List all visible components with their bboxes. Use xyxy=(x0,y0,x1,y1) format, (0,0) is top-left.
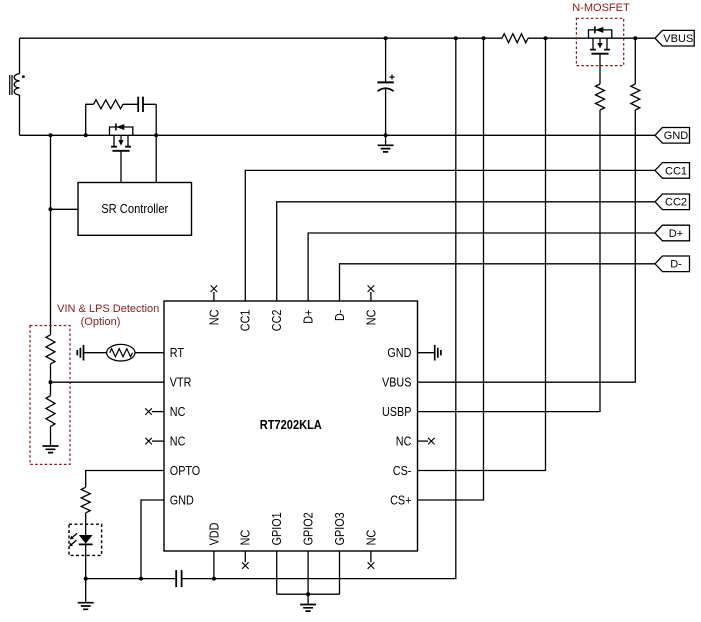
pin NC left stub 1 xyxy=(152,411,164,413)
resistor R2 snubber xyxy=(94,100,123,109)
pin NC bottom stub 1 xyxy=(244,551,246,562)
wire bottom VDD rail xyxy=(86,38,456,578)
ground GPIO xyxy=(307,594,309,604)
port D+ xyxy=(655,225,690,241)
port GND xyxy=(655,128,690,144)
wire GND rail xyxy=(20,134,656,136)
wire GPIO bus xyxy=(277,593,340,595)
transistor Q2 N-MOSFET xyxy=(589,30,612,38)
svg-text:(Option): (Option) xyxy=(81,316,121,328)
svg-text:NC: NC xyxy=(364,530,378,546)
svg-text:VBUS: VBUS xyxy=(663,33,693,45)
svg-text:NC: NC xyxy=(170,434,186,448)
wire C1 branch xyxy=(385,38,387,135)
wire D+ net xyxy=(308,233,655,301)
port CC2 xyxy=(655,194,690,210)
svg-text:RT: RT xyxy=(170,346,185,360)
svg-text:CC2: CC2 xyxy=(665,197,687,209)
IC right pin labels xyxy=(382,346,411,507)
svg-text:CC1: CC1 xyxy=(239,310,253,332)
capacitor C3 VDD bypass xyxy=(176,570,181,587)
thermistor RT1 xyxy=(107,344,135,361)
IC bottom pin labels xyxy=(207,512,378,545)
wire SR controller VIN feed xyxy=(51,208,79,210)
wire VDD stub xyxy=(213,551,215,579)
resistor R5 opto xyxy=(81,487,90,512)
svg-text:VIN & LPS Detection: VIN & LPS Detection xyxy=(57,303,159,315)
wire IC GND left pin xyxy=(141,500,164,579)
node junction top C1 xyxy=(384,36,388,40)
ground RT (left) xyxy=(77,345,83,361)
pin NC bottom stub 2 xyxy=(370,551,372,562)
pin NC top-right stub xyxy=(370,292,372,301)
wire opto to LED xyxy=(85,513,87,535)
svg-text:D-: D- xyxy=(670,259,682,271)
svg-text:VDD: VDD xyxy=(207,523,221,546)
ground IC GND (right) xyxy=(435,345,441,361)
pin NC left stub 2 xyxy=(152,440,164,442)
wire CC2 net xyxy=(277,202,655,301)
svg-text:D-: D- xyxy=(333,310,347,321)
wire Q1 drain sense to SR controller xyxy=(155,135,157,182)
svg-text:GND: GND xyxy=(387,346,411,360)
wire snubber mid xyxy=(123,103,156,105)
wire VBUS sense net xyxy=(418,38,636,382)
wire snubber left leg xyxy=(86,104,94,135)
svg-text:NC: NC xyxy=(207,310,221,326)
svg-text:CS-: CS- xyxy=(393,464,412,478)
node junction VBUS net xyxy=(633,36,637,40)
IC U1 RT7202KLA body xyxy=(164,301,418,551)
node A divider tap xyxy=(49,380,53,384)
dashed option box xyxy=(30,326,70,465)
port D- xyxy=(655,256,690,272)
wire divider mid xyxy=(50,364,52,396)
svg-text:NC: NC xyxy=(170,405,186,419)
resistor R6 VBUS xyxy=(631,84,640,110)
node junction GPIO2 xyxy=(306,592,310,596)
svg-text:SR Controller: SR Controller xyxy=(101,202,168,216)
wire USBP gate net xyxy=(418,54,601,412)
ground below C1 xyxy=(385,135,387,145)
wire CS- net xyxy=(418,38,546,470)
IC top pin labels xyxy=(207,310,378,332)
svg-text:GND: GND xyxy=(664,130,688,142)
svg-text:VTR: VTR xyxy=(170,376,192,390)
SR Controller U2 xyxy=(78,183,192,236)
wire OPTO xyxy=(86,471,164,488)
node junction gnd-rail xyxy=(139,577,143,581)
svg-text:USBP: USBP xyxy=(382,405,411,419)
node junction VDD xyxy=(212,577,216,581)
wire VTR xyxy=(51,381,165,383)
ground opto xyxy=(85,579,87,603)
svg-text:VBUS: VBUS xyxy=(382,376,411,390)
wire IC GND pin xyxy=(418,352,435,354)
node junction CS+ xyxy=(482,36,486,40)
svg-text:CC2: CC2 xyxy=(270,310,284,332)
svg-text:NC: NC xyxy=(239,530,253,546)
node junction snubber right xyxy=(154,133,158,137)
transistor Q1 SR MOSFET xyxy=(110,127,133,135)
wire divider bottom xyxy=(50,427,52,447)
wire CC1 net xyxy=(245,170,655,301)
node junction VDD rail top xyxy=(454,36,458,40)
svg-text:GND: GND xyxy=(170,493,194,507)
wire D- net xyxy=(340,264,656,301)
svg-text:D+: D+ xyxy=(302,310,316,324)
dashed N-MOSFET box xyxy=(576,18,623,65)
svg-text:CC1: CC1 xyxy=(665,165,687,177)
wire GPIO1 xyxy=(276,551,278,594)
svg-text:N-MOSFET: N-MOSFET xyxy=(572,2,630,14)
node junction GND C1 xyxy=(384,133,388,137)
node junction divider top xyxy=(49,133,53,137)
wire RT right xyxy=(135,352,164,354)
transformer T1 secondary winding xyxy=(10,38,25,135)
port VBUS xyxy=(655,30,694,46)
capacitor C2 snubber xyxy=(138,97,143,112)
svg-text:RT7202KLA: RT7202KLA xyxy=(260,418,322,432)
IC left pin labels xyxy=(170,346,201,507)
wire GPIO3 xyxy=(339,551,341,594)
optocoupler D1 LED xyxy=(79,535,93,544)
resistor R4 divider lower xyxy=(46,396,55,427)
wire divider feed xyxy=(50,135,52,334)
ground divider xyxy=(43,446,59,453)
node junction SR feed xyxy=(49,207,53,211)
wire LED to bottom rail xyxy=(85,544,87,578)
capacitor C1 bulk electrolytic xyxy=(377,75,394,92)
svg-text:NC: NC xyxy=(396,434,412,448)
svg-text:CS+: CS+ xyxy=(390,493,411,507)
wire top VBUS rail xyxy=(20,37,656,39)
dashed optocoupler box xyxy=(69,524,102,555)
svg-text:NC: NC xyxy=(364,310,378,326)
svg-text:GPIO2: GPIO2 xyxy=(302,512,316,545)
wire RT left xyxy=(84,352,107,354)
svg-text:D+: D+ xyxy=(669,228,683,240)
port CC1 xyxy=(655,163,690,179)
resistor R1 current-sense xyxy=(502,34,528,43)
wire GPIO2 xyxy=(307,551,309,594)
node junction snubber left xyxy=(84,133,88,137)
wire CS+ net xyxy=(418,38,484,500)
wire snubber right leg xyxy=(155,104,157,135)
resistor R7 gate xyxy=(596,84,605,110)
resistor R3 divider upper xyxy=(46,335,55,364)
pin NC right stub xyxy=(418,440,429,442)
node junction CS- xyxy=(544,36,548,40)
node junction opto-rail xyxy=(84,577,88,581)
svg-text:GPIO3: GPIO3 xyxy=(333,512,347,545)
pin NC top-left stub xyxy=(213,292,215,301)
svg-text:OPTO: OPTO xyxy=(170,464,201,478)
svg-text:GPIO1: GPIO1 xyxy=(270,512,284,545)
wire Q1 gate to SR controller xyxy=(120,151,122,183)
